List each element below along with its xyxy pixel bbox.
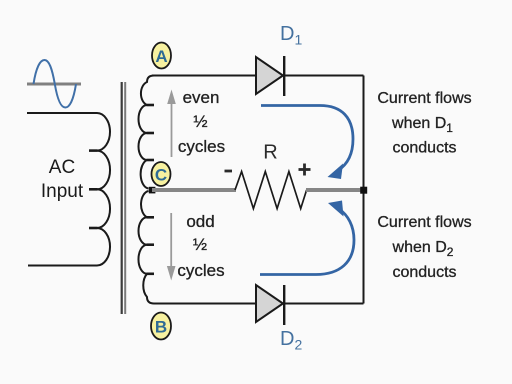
wire output rail left (gray) — [152, 188, 236, 192]
output junction dot — [360, 187, 367, 194]
current flow arrow for D1 (blue) — [261, 106, 353, 180]
sine wave (AC waveform) — [34, 60, 77, 108]
wire right vertical — [363, 76, 365, 304]
secondary upper cusp tick 1 — [147, 104, 155, 107]
svg-text:cycles: cycles — [178, 137, 225, 156]
label current flows when D2 conducts — [377, 214, 471, 281]
label plus — [299, 164, 311, 176]
resistor R — [235, 172, 307, 209]
svg-text:cycles: cycles — [177, 261, 224, 280]
current flow arrow for D2 (blue) — [260, 201, 354, 275]
secondary upper cusp tick 3 — [147, 159, 155, 162]
svg-text:conducts: conducts — [392, 140, 456, 157]
primary winding cusp tick 1 — [89, 149, 98, 152]
wire primary bottom — [28, 265, 97, 267]
svg-text:even: even — [183, 88, 220, 107]
label minus — [225, 170, 233, 173]
label even 1/2 cycles — [178, 88, 225, 156]
transformer core line left — [121, 82, 123, 314]
wire secondary top — [152, 75, 256, 77]
primary winding cusp tick 2 — [89, 188, 98, 191]
wire secondary top right of D1 — [285, 75, 364, 77]
label current flows when D1 conducts — [377, 90, 471, 157]
node C — [152, 162, 171, 186]
wire output rail right (gray) — [306, 188, 361, 192]
svg-text:½: ½ — [193, 235, 207, 254]
arrow even half cycles (gray up) — [167, 90, 176, 158]
secondary upper cusp tick 2 — [147, 132, 155, 135]
svg-text:odd: odd — [186, 212, 214, 231]
sine wave axis line — [27, 83, 81, 86]
inductor primary winding L1 — [97, 113, 110, 266]
svg-text:½: ½ — [193, 112, 207, 131]
diode D1 — [256, 56, 284, 96]
inductor secondary lower winding — [138, 191, 154, 304]
wire primary top — [27, 112, 97, 114]
secondary lower cusp tick 3 — [147, 272, 155, 275]
center tap junction dot — [149, 187, 156, 194]
label odd 1/2 cycles — [177, 212, 224, 280]
node B — [151, 313, 171, 340]
arrow odd half cycles (gray down) — [167, 213, 176, 281]
inductor secondary upper winding — [139, 76, 155, 189]
svg-text:B: B — [155, 318, 167, 337]
primary winding cusp tick 3 — [89, 227, 98, 230]
svg-text:R: R — [263, 142, 277, 164]
secondary lower cusp tick 2 — [147, 243, 155, 246]
transformer core line right — [124, 82, 126, 314]
diode D2 — [256, 285, 284, 325]
svg-text:AC: AC — [49, 157, 75, 178]
node A — [152, 43, 171, 69]
svg-text:C: C — [155, 166, 167, 185]
wire secondary bottom — [154, 303, 364, 305]
svg-text:conducts: conducts — [392, 264, 456, 281]
secondary lower cusp tick 1 — [147, 216, 155, 219]
svg-text:A: A — [155, 47, 167, 66]
svg-text:Current flows: Current flows — [377, 90, 471, 107]
svg-text:Input: Input — [41, 181, 84, 202]
svg-text:Current flows: Current flows — [377, 214, 471, 231]
